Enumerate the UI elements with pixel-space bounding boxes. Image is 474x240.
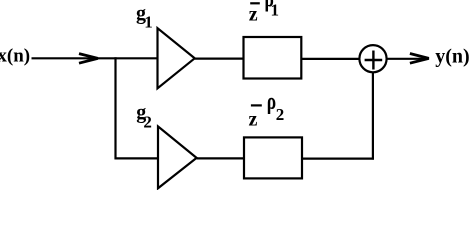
svg-text:1: 1 — [271, 1, 280, 20]
svg-text:z: z — [249, 4, 258, 26]
svg-text:ρ: ρ — [267, 87, 276, 114]
svg-text:1: 1 — [144, 13, 153, 32]
svg-text:2: 2 — [143, 112, 152, 131]
svg-text:2: 2 — [276, 105, 285, 124]
svg-text:z: z — [249, 108, 258, 130]
svg-text:y(n): y(n) — [435, 45, 469, 67]
svg-text:x(n): x(n) — [0, 46, 30, 67]
